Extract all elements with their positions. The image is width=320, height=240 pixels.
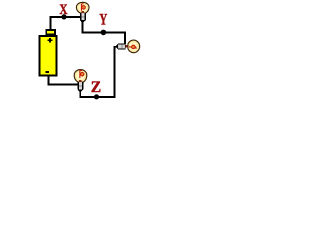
battery plus sign xyxy=(47,38,52,43)
lamp L2 filament xyxy=(129,45,136,49)
lamp L2 (right, horizontal) screw base xyxy=(118,44,125,50)
wire from lamp L3 down to bottom-most run xyxy=(79,92,81,99)
lamp L1 neck xyxy=(81,11,83,13)
lamp L1 (top) bulb glass xyxy=(76,2,89,13)
node X junction dot xyxy=(61,14,66,19)
wire node X horizontal run to lamp L1 xyxy=(50,16,80,18)
lamp L2 bulb glass xyxy=(128,40,140,53)
lamp L3 filament xyxy=(79,70,84,78)
lamp L1 screw base xyxy=(80,13,86,20)
battery minus sign xyxy=(46,71,50,73)
lamp L3 screw base xyxy=(77,82,83,90)
battery B1 positive cap xyxy=(46,30,55,34)
lamp L2 left contact tip xyxy=(116,44,118,50)
wire right branch down to bottom xyxy=(114,46,116,98)
svg-text:X: X xyxy=(59,0,67,17)
svg-text:Y: Y xyxy=(99,10,107,28)
wire lamp L2 left stub xyxy=(114,46,117,48)
svg-text:Z: Z xyxy=(91,79,101,96)
wire from node Y run down to lamp L2 xyxy=(124,32,126,45)
lamp L3 bottom contact tip xyxy=(78,90,84,92)
node Z junction dot xyxy=(94,94,99,99)
lamp L3 neck xyxy=(79,80,81,82)
wire battery + terminal up to node X level xyxy=(50,16,52,29)
wire from battery - terminal down then right along bottom xyxy=(47,76,77,85)
wire from lamp L1 down to node Y level xyxy=(81,22,83,34)
lamp L3 (bottom) bulb glass xyxy=(74,70,87,82)
lamp L2 neck xyxy=(125,45,128,47)
wire node Y horizontal run xyxy=(81,32,126,34)
node Y junction dot xyxy=(101,30,107,36)
lamp L1 filament xyxy=(81,4,85,11)
wire bottom-most run xyxy=(79,96,115,98)
battery B1 body xyxy=(40,36,57,76)
lamp L1 bottom contact tip xyxy=(80,20,86,22)
